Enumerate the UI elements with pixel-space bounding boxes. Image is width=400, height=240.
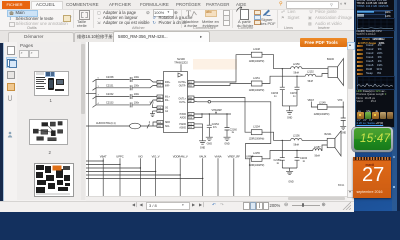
wire cap join 2 (282, 168, 297, 171)
horizontal scrollbar (86, 196, 347, 202)
capacitor C2155 (225, 114, 238, 137)
node junction C2155 tap (226, 113, 227, 114)
svg-text:GND: GND (200, 146, 206, 149)
small icon stack (223, 10, 230, 16)
speaker B2101 (325, 131, 342, 156)
vertical scrollbar (347, 42, 355, 197)
svg-text:INL+: INL+ (165, 96, 171, 98)
wire coil to speaker2 top (302, 139, 327, 141)
wire OUTL+ to coil (262, 132, 291, 140)
thumbnail 1 (34, 71, 69, 97)
wire OUTL- to coil (262, 150, 313, 158)
pin B1 (157, 98, 163, 102)
thumbnail 3 (34, 163, 74, 197)
small icon stack 2 (254, 10, 261, 16)
node highlight annotation (193, 59, 237, 70)
svg-text:L2156: L2156 (293, 134, 300, 137)
Signer des PDF (262, 7, 271, 16)
Machine à écrire (186, 8, 191, 18)
pin A4 (188, 96, 194, 100)
svg-text:120R(100MHz): 120R(100MHz) (249, 89, 265, 91)
svg-text:C2158: C2158 (106, 76, 114, 79)
wire coil to speaker2 bottom (321, 145, 327, 151)
node junction C2157 tap (296, 75, 297, 76)
capacitor C2156 (271, 68, 285, 105)
svg-text:GND: GND (288, 180, 294, 183)
svg-text:C2151: C2151 (106, 84, 114, 87)
svg-text:2: 2 (149, 121, 151, 124)
wire input row 4 (93, 104, 130, 107)
wire PVDD (194, 113, 231, 115)
wire OUTR- (194, 83, 251, 85)
wire input row 2 (93, 87, 130, 90)
inductor L2148 (249, 48, 265, 63)
ground PGND (199, 140, 206, 149)
À partir du fichier (240, 9, 249, 20)
ground speaker2 (286, 171, 294, 183)
Lien / Signet (grayed) (281, 9, 285, 14)
inductor L2152 (305, 70, 315, 83)
svg-text:1n: 1n (277, 163, 280, 165)
svg-text:C2160: C2160 (230, 128, 238, 131)
inductor L2151 (249, 76, 265, 91)
node bus junctions (103, 160, 204, 179)
svg-text:C2160: C2160 (300, 157, 308, 160)
Mettre en évidence (205, 10, 217, 17)
pin E4 (188, 112, 194, 116)
svg-text:56nH: 56nH (294, 144, 300, 146)
wire bus horizontal 3 (86, 167, 140, 169)
svg-text:VREF_RF: VREF_RF (228, 154, 241, 158)
svg-text:L2152: L2152 (307, 70, 314, 73)
svg-text:VAUX: VAUX (199, 154, 206, 158)
svg-text:1n: 1n (303, 161, 306, 163)
svg-text:VHF: VHF (338, 98, 343, 101)
ground left (150, 111, 157, 117)
pin A2 (188, 99, 194, 103)
svg-text:INR-: INR- (165, 85, 170, 87)
capacitor C2157 (290, 76, 300, 106)
svg-text:INL-: INL- (165, 99, 170, 101)
wire row4 to pin (132, 100, 157, 105)
svg-text:VIO: VIO (138, 154, 143, 158)
node AUDIOCTRL(0,1) (86, 122, 141, 129)
wire OUTR+ to coil (262, 54, 291, 68)
node junction AVDD join (201, 113, 202, 114)
svg-text:L2149: L2149 (319, 101, 326, 104)
wire AVDD (194, 114, 202, 118)
svg-text:SDR: SDR (165, 121, 170, 123)
svg-text:120R(100MHz): 120R(100MHz) (249, 138, 265, 140)
pin C1 (157, 84, 163, 88)
svg-text:100n: 100n (134, 84, 140, 87)
svg-text:56nH: 56nH (314, 155, 320, 157)
svg-text:VBAT: VBAT (100, 154, 107, 158)
capacitor C2151 (106, 84, 140, 90)
svg-text:C2153: C2153 (106, 101, 114, 104)
svg-text:PGND: PGND (179, 123, 186, 125)
svg-text:1n: 1n (274, 96, 277, 98)
wire bus horizontal 4 (86, 170, 156, 172)
wire input row 1 (93, 79, 130, 82)
Free PDF Tools button (300, 38, 347, 47)
svg-text:UREF: UREF (246, 154, 254, 158)
Pièce jointe col (grayed) (309, 9, 313, 14)
svg-text:C2159: C2159 (274, 159, 282, 162)
svg-text:L2157: L2157 (314, 146, 321, 149)
svg-text:AUDIOCTRL(0,1): AUDIOCTRL(0,1) (96, 122, 116, 125)
node VBAT bus label (100, 154, 107, 158)
inductor L2155 (249, 152, 265, 167)
svg-text:1u: 1u (232, 132, 235, 134)
wire row3 to pin (132, 95, 157, 97)
wire OUTL- (194, 101, 271, 159)
node junction C2160 tap (296, 149, 297, 150)
node VHFAMP supply label (212, 109, 223, 114)
svg-text:56nH: 56nH (308, 80, 314, 82)
node junction C2159 tap (282, 139, 283, 140)
capacitor C2154 (207, 114, 220, 137)
speaker B2100 (327, 57, 344, 85)
node input bus (95, 79, 97, 104)
svg-text:47u: 47u (213, 126, 218, 128)
pin D3 (157, 120, 163, 124)
svg-text:AVDD: AVDD (180, 116, 187, 119)
svg-text:VDDRAM_V: VDDRAM_V (173, 154, 188, 158)
inductor L2150 (291, 62, 302, 74)
svg-text:B2100: B2100 (327, 57, 335, 60)
node junction C2154 tap (209, 113, 210, 114)
pin E3 (188, 125, 194, 129)
wire bus horizontal 5 (86, 174, 180, 176)
inductor L2149 (314, 101, 330, 115)
svg-text:VIO_V: VIO_V (152, 154, 160, 158)
wire row1 to pin (132, 79, 157, 82)
wire bus horizontal 1 (86, 160, 103, 162)
svg-text:L2148: L2148 (253, 48, 260, 51)
pin C2 (188, 122, 194, 126)
node VIO (150, 101, 158, 107)
svg-text:L2154: L2154 (253, 125, 260, 128)
inductor L2157 (313, 146, 322, 158)
pin B3 (157, 124, 163, 128)
node VBAT (308, 98, 318, 106)
op-amp U1 N2100 TPA6012D2 (164, 57, 189, 133)
pin E1 (188, 80, 194, 84)
svg-text:56nH: 56nH (294, 72, 300, 74)
svg-text:C2152: C2152 (106, 93, 114, 96)
svg-text:C2156: C2156 (271, 92, 279, 95)
svg-text:100n: 100n (134, 76, 140, 79)
svg-text:TPA6012D2: TPA6012D2 (174, 61, 188, 64)
pin numbers (98, 77, 100, 104)
svg-text:AGND: AGND (179, 126, 186, 129)
svg-text:GND: GND (224, 142, 230, 145)
svg-text:C2154: C2154 (212, 122, 220, 125)
ground C2154 (206, 137, 213, 145)
pin B4 (157, 109, 163, 113)
svg-text:L2151: L2151 (253, 76, 260, 79)
left desktop sliver below ribbon (0, 26, 3, 211)
ground C2155 (224, 137, 231, 145)
wire row2 to pin (132, 85, 157, 87)
wire left edge input (86, 92, 96, 94)
capacitor C2158 (106, 76, 140, 82)
node junction VHF cap tap (343, 106, 344, 107)
desktop right strip (392, 0, 397, 211)
wire coil to speaker top (302, 67, 328, 69)
svg-text:VBAT: VBAT (308, 98, 315, 101)
svg-text:L2150: L2150 (293, 62, 300, 65)
wire bus drops (103, 158, 250, 196)
capacitor C2153 (106, 101, 140, 107)
svg-text:SOL: SOL (165, 125, 170, 127)
capacitor C2160 (295, 150, 308, 168)
svg-text:220R(100MHz): 220R(100MHz) (314, 113, 330, 115)
Taille réelle (79, 10, 90, 20)
wire OUTL+ (194, 97, 251, 132)
svg-text:UPPC: UPPC (116, 154, 124, 158)
ground VHF (340, 126, 346, 134)
pin E2 (188, 84, 194, 88)
svg-text:GND: GND (207, 142, 213, 145)
svg-text:OUTR-: OUTR- (179, 85, 187, 87)
svg-text:VHFAMP: VHFAMP (212, 109, 223, 112)
svg-text:OUTR+: OUTR+ (178, 81, 187, 83)
wire PGND AGND (194, 123, 203, 140)
svg-text:INR+: INR+ (165, 81, 171, 83)
group Afficher (97, 10, 101, 15)
group: Outils (7, 10, 38, 18)
wire OUTR- to coil (262, 76, 305, 83)
wire bus horizontal 2 (86, 163, 120, 165)
application window (0, 0, 354, 211)
svg-text:100n: 100n (134, 93, 140, 96)
wire cap join (282, 105, 297, 110)
node test point (208, 100, 211, 103)
svg-text:100n: 100n (134, 101, 140, 104)
ground mid top (286, 110, 293, 119)
wire coil to speaker bottom (316, 73, 328, 76)
svg-text:N2100: N2100 (177, 57, 185, 61)
capacitor C2159 (274, 140, 285, 168)
svg-text:BD11: BD11 (338, 183, 345, 187)
svg-text:1n: 1n (293, 96, 296, 98)
inductor L2156 (291, 134, 302, 146)
svg-text:C2157: C2157 (290, 92, 298, 95)
svg-text:120R(100MHz): 120R(100MHz) (249, 60, 265, 62)
svg-text:VANA: VANA (214, 154, 221, 158)
svg-text:VIO: VIO (150, 101, 154, 104)
capacitor C2161 (341, 107, 346, 126)
node junction C2156 tap (282, 68, 283, 69)
pin D4 (188, 116, 194, 120)
svg-text:L2155: L2155 (253, 152, 260, 155)
search box in tab row (279, 1, 283, 7)
pages panel scrollbar (81, 42, 86, 200)
pin C4 (157, 106, 163, 110)
capacitor C2152 (106, 93, 140, 99)
wire bus to pins (141, 122, 158, 128)
svg-text:OUTL-: OUTL- (179, 101, 186, 103)
wire VBAT to VHF (327, 101, 343, 107)
inductor L2154 (249, 125, 265, 140)
wire bus horizontal 6 (86, 177, 203, 179)
svg-text:120R(100MHz): 120R(100MHz) (249, 164, 265, 166)
pin A1 (157, 95, 163, 99)
svg-text:PVDD: PVDD (180, 113, 187, 115)
wire OUTR+ (194, 54, 251, 81)
svg-text:OUTL+: OUTL+ (179, 98, 187, 100)
svg-text:GND: GND (287, 116, 293, 119)
thumbnail 2 (29, 119, 69, 145)
pin D1 (157, 80, 163, 84)
svg-text:B2101: B2101 (325, 133, 333, 136)
wire input row 3 (93, 96, 130, 99)
